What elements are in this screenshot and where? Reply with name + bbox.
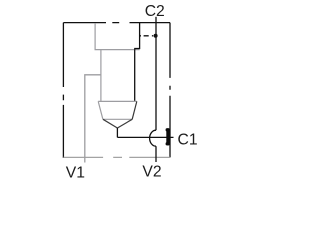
poppet apex stem down to C1 line <box>116 128 118 137</box>
C1 port thick bar <box>166 128 170 145</box>
cartridge outline: top hex box (gray left/bottom) <box>95 23 140 50</box>
cartridge outline: body tube left wall (gray) <box>100 50 102 102</box>
cartridge outline: nose shoulder + left taper (gray) <box>98 101 137 119</box>
poppet V seat (black) <box>103 119 132 128</box>
V1 port line (gray) <box>85 75 101 163</box>
cartridge outline: nose right taper (black) <box>132 101 137 119</box>
valve body boundary left edge (dashed) <box>62 23 64 158</box>
svg-text:V1: V1 <box>66 164 85 181</box>
svg-text:C1: C1 <box>178 132 198 149</box>
svg-text:V2: V2 <box>142 163 161 180</box>
svg-text:C2: C2 <box>145 3 165 20</box>
pilot dashed line from cartridge to C2 line <box>140 35 154 37</box>
valve body boundary right edge (dashed) <box>169 23 171 158</box>
valve body boundary bottom edge (dashed, gray) <box>63 156 170 158</box>
cartridge outline: body tube right wall (black) <box>134 50 136 102</box>
junction dot on pilot line <box>154 34 158 38</box>
C1 horizontal line <box>117 136 173 138</box>
cartridge outline: top hex box right edge (black) <box>135 23 140 50</box>
valve body boundary top edge (dashed) <box>63 22 170 24</box>
C2 / V2 vertical line with hop arc <box>150 17 156 162</box>
